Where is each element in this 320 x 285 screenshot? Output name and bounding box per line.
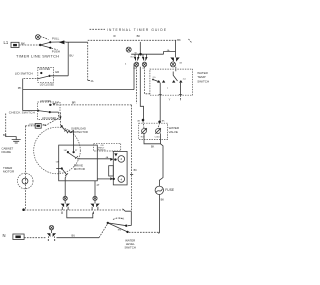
wire BR corner down long <box>131 105 133 211</box>
svg-text:BK: BK <box>3 133 7 137</box>
wire valve to fuse <box>159 144 163 186</box>
node valve terminal right <box>158 121 161 124</box>
aux box notch <box>109 166 114 176</box>
node check switch lower contact <box>49 111 51 113</box>
wire lower contact exit <box>65 177 66 178</box>
wire riser to cam cluster <box>133 64 135 90</box>
wire BK vertical right <box>175 40 177 57</box>
node motor lower dot <box>61 167 63 169</box>
svg-text:LID SWITCH: LID SWITCH <box>15 71 33 75</box>
svg-text:MOTOR: MOTOR <box>3 170 15 174</box>
node motor switch dot b <box>73 151 75 153</box>
WTS terminal tick 1 <box>159 94 162 96</box>
wire WTS to valve <box>159 95 161 121</box>
svg-text:FRAME: FRAME <box>2 150 12 154</box>
winding circle upper <box>118 156 125 163</box>
svg-text:BU: BU <box>72 234 76 238</box>
wire valve right lead <box>158 123 160 129</box>
node PULL contact <box>49 41 51 43</box>
contact bar motor lower <box>65 173 68 176</box>
tick on long vertical <box>130 174 133 176</box>
WTS terminal wire 1 <box>159 83 161 95</box>
contact arm check switch <box>38 111 50 113</box>
node aux terminal upper <box>114 158 116 160</box>
svg-text:CHECK SWITCH: CHECK SWITCH <box>9 111 35 115</box>
valve coil cold <box>155 128 160 133</box>
svg-text:TIMER LINE SWITCH: TIMER LINE SWITCH <box>16 54 59 58</box>
WTS terminal wire 2 <box>180 83 182 95</box>
node water level pivot <box>107 222 109 224</box>
WTS contacts left group <box>157 80 165 83</box>
arrow aux upper <box>110 158 113 161</box>
wire diagonal to timer motor circuit <box>45 118 59 126</box>
right cam circle <box>171 62 176 67</box>
svg-text:COLD: COLD <box>155 137 161 139</box>
wire drop left dashed <box>135 67 137 104</box>
WTS terminal tick 2 <box>179 94 182 96</box>
wire valve left lead <box>143 121 144 129</box>
wire motor drop to cam 2 <box>94 188 96 204</box>
svg-text:Y: Y <box>169 98 171 102</box>
cam circle right <box>142 62 146 66</box>
connector arrow on overload line <box>59 117 61 120</box>
drive motor circle <box>34 127 81 174</box>
internal timer guide boundary <box>88 39 177 41</box>
fuse F1 <box>155 186 163 194</box>
wire into motor box to dot <box>73 145 75 152</box>
wire lid switch input dashed <box>24 78 38 80</box>
wire BK drop from guide <box>139 42 141 54</box>
svg-text:2A: 2A <box>91 80 94 83</box>
marker triangle aux top <box>114 153 117 156</box>
cam 2 legs <box>92 207 98 210</box>
node check switch upper contact <box>49 104 51 106</box>
WTS pivot right <box>173 72 177 82</box>
cam 1 legs <box>62 207 68 210</box>
wire to ground symbol <box>6 134 17 139</box>
wire to PUSH contact <box>40 45 50 48</box>
cam N ticks <box>48 239 54 241</box>
check switch enclosure <box>38 102 61 120</box>
valve coil hot <box>141 128 146 133</box>
svg-text:L1: L1 <box>4 40 9 45</box>
node lid switch contact 1 <box>40 72 42 74</box>
cam N legs <box>49 236 55 238</box>
cam cluster contacts left <box>134 57 140 61</box>
wire diagonal to WL pivot <box>99 223 108 237</box>
svg-text:BR: BR <box>72 100 76 104</box>
dashed swing arc WL <box>113 218 124 220</box>
cam 1 tick below <box>61 212 63 215</box>
note box dashed <box>94 143 121 151</box>
arrow aux lower <box>110 177 113 180</box>
overload vertical from check switch <box>59 113 61 127</box>
wire N to water level switch <box>57 237 100 239</box>
node overload junction <box>61 125 63 127</box>
wire bottom bus <box>24 209 123 211</box>
cam cluster contacts right <box>142 57 148 61</box>
wire L1 to timer line switch <box>19 44 40 46</box>
contact arrowhead <box>59 40 65 44</box>
start switch aux box <box>113 151 127 185</box>
contact arm lid switch <box>37 76 49 79</box>
svg-text:INTERNAL TIMER GUIDE: INTERNAL TIMER GUIDE <box>107 28 166 32</box>
wire fuse bottom corner <box>158 232 159 234</box>
wire overload to motor <box>70 130 73 145</box>
svg-text:LID CLOSED: LID CLOSED <box>42 117 56 120</box>
svg-text:GR: GR <box>55 70 59 74</box>
svg-text:SWITCH: SWITCH <box>124 246 135 250</box>
svg-text:BK: BK <box>134 169 138 172</box>
svg-text:OVERLOAD: OVERLOAD <box>71 126 86 130</box>
contact arm motor top <box>68 152 76 157</box>
contact arm WL to empty <box>108 223 128 232</box>
wire PK vertical lid to check switch <box>22 79 24 111</box>
wire to PULL contact <box>40 42 50 45</box>
svg-text:PULL: PULL <box>52 36 60 40</box>
WTS arm left <box>153 80 158 82</box>
contact arm WL to full <box>108 223 127 226</box>
contact arm timer line switch <box>52 41 66 43</box>
svg-text:BU: BU <box>70 53 74 57</box>
node junction timer line switch input <box>39 44 41 46</box>
wire BR dashed check switch to valve feed <box>57 104 132 106</box>
contact arm motor lower <box>62 169 67 175</box>
wire timer motor feed dashed <box>24 126 26 210</box>
svg-text:LID CLOSED: LID CLOSED <box>40 84 54 87</box>
stub WTS right terminal <box>180 95 182 101</box>
stub 5M left <box>56 168 62 170</box>
svg-text:SWITCH: SWITCH <box>197 79 209 83</box>
wire motor to start box <box>77 158 113 160</box>
svg-text:BK: BK <box>161 198 165 202</box>
wire upper contact dashed <box>50 104 57 106</box>
wire cluster horizontal <box>131 53 163 55</box>
svg-text:BU: BU <box>131 56 134 58</box>
wire down at x87.7 <box>87 42 89 80</box>
node lid switch contact 2 <box>49 75 51 77</box>
node aux terminal lower <box>113 178 115 180</box>
wire bypass below bus <box>67 210 93 218</box>
contact bar motor top <box>75 156 78 159</box>
wire 4A right from pull contact <box>66 41 88 43</box>
svg-text:5M: 5M <box>64 150 67 152</box>
wire empty to fuse line <box>129 231 160 233</box>
wire PUSH stub dashed <box>51 48 57 50</box>
wire bus step <box>123 209 132 211</box>
wire cluster legs <box>135 54 146 57</box>
wire cam N link <box>51 230 53 233</box>
drive motor box <box>59 145 98 181</box>
node motor switch dot a <box>67 151 69 153</box>
overload protector element <box>65 130 71 133</box>
water valve enclosure <box>139 123 168 139</box>
wire motor to aux lower <box>97 178 112 180</box>
svg-text:MOTOR: MOTOR <box>74 167 86 171</box>
cam switch motor cam 1 circle <box>63 196 67 200</box>
wire drop center to valve <box>140 67 143 119</box>
connector DR box <box>35 124 41 129</box>
cam switch N line circle <box>49 225 53 229</box>
node empty contact <box>126 231 128 233</box>
wire to right cam <box>164 52 176 55</box>
wire to timer motor vertical <box>25 125 35 127</box>
winding circle lower <box>118 176 125 183</box>
wire N dashed <box>24 237 46 239</box>
svg-text:PROTECTOR: PROTECTOR <box>71 130 88 134</box>
svg-text:BR: BR <box>43 123 47 127</box>
wire fuse down <box>158 195 160 234</box>
water temp switch enclosure <box>150 69 193 95</box>
cam 1 contacts <box>61 204 70 208</box>
wire bus corner down to full contact <box>128 211 131 226</box>
cam symbol timer line switch <box>36 35 41 40</box>
connector N terminal <box>13 234 24 240</box>
svg-text:BK: BK <box>137 34 141 38</box>
node check switch pivot <box>37 110 39 112</box>
svg-text:PK: PK <box>18 86 22 90</box>
wire to overload protector <box>62 126 66 131</box>
label INTERNAL TIMER GUIDE <box>90 28 106 30</box>
connector mark v <box>53 103 55 105</box>
WTS contacts right group <box>172 80 183 83</box>
lid switch enclosure <box>38 68 54 83</box>
node PUSH contact <box>49 47 51 49</box>
svg-text:LID OPEN: LID OPEN <box>39 68 50 71</box>
wire valve return U <box>144 133 161 143</box>
cam circle left <box>134 62 138 66</box>
wire BU vertical from pull contact <box>67 42 69 76</box>
svg-text:BK: BK <box>177 38 181 42</box>
svg-text:N: N <box>3 233 6 238</box>
wire ground dashed vertical <box>5 114 7 135</box>
svg-text:BK: BK <box>151 145 155 148</box>
svg-text:PUSH: PUSH <box>52 49 60 53</box>
svg-text:MODELS: MODELS <box>97 150 106 152</box>
wire check switch input <box>23 110 38 112</box>
cam N contacts <box>47 233 56 237</box>
wire GR lid switch output <box>51 75 68 77</box>
wire long horizontal to timer cam 1M <box>23 89 134 91</box>
wire motor right drop <box>94 181 96 188</box>
cam 2 contacts <box>90 204 99 208</box>
cam 2 tick below <box>93 212 95 215</box>
svg-text:FUSE: FUSE <box>165 188 175 192</box>
svg-text:5M: 5M <box>56 161 59 163</box>
svg-text:LID OPEN: LID OPEN <box>40 100 51 103</box>
cam symbol main timer <box>126 47 131 52</box>
svg-text:1M: 1M <box>133 68 136 70</box>
wire right cam into WTS <box>175 67 177 72</box>
node valve terminal left <box>142 119 145 122</box>
node cluster junction <box>139 53 142 56</box>
svg-text:VALVE: VALVE <box>169 130 178 134</box>
cam switch motor cam 2 circle <box>93 196 97 200</box>
node bus start junction <box>22 208 25 211</box>
connector L1 terminal <box>11 42 19 47</box>
wire drop right dashed to WTS <box>145 67 150 94</box>
guide marks right <box>189 39 192 43</box>
ground <box>12 140 21 143</box>
node full contact <box>125 225 127 227</box>
wire hook 2A <box>88 80 90 82</box>
wire check switch output <box>50 111 59 113</box>
wire motor drop to cam 1 <box>64 178 66 204</box>
timer motor <box>17 173 33 189</box>
WTS pivot left <box>152 79 154 81</box>
svg-text:EM: EM <box>118 229 121 231</box>
right cam contacts <box>170 58 179 62</box>
wire cam link dashed <box>40 37 49 40</box>
wire check output down <box>58 112 60 118</box>
